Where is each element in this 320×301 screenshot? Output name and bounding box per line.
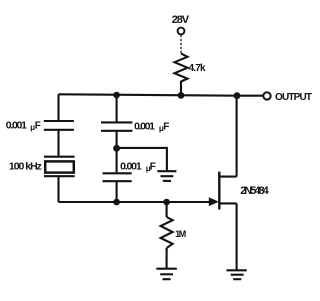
- svg-text:28V: 28V: [172, 14, 190, 26]
- svg-text:0.001: 0.001: [6, 119, 27, 131]
- svg-text:0.001: 0.001: [134, 121, 155, 133]
- svg-text:4.7k: 4.7k: [189, 63, 206, 74]
- svg-text:F: F: [163, 122, 169, 133]
- svg-text:100 kHz: 100 kHz: [9, 160, 42, 172]
- svg-text:OUTPUT: OUTPUT: [275, 92, 312, 103]
- svg-text:0.001: 0.001: [120, 160, 142, 172]
- svg-text:2N5484: 2N5484: [240, 185, 269, 197]
- svg-text:F: F: [35, 120, 41, 131]
- svg-text:1M: 1M: [175, 229, 186, 239]
- svg-text:F: F: [150, 161, 156, 172]
